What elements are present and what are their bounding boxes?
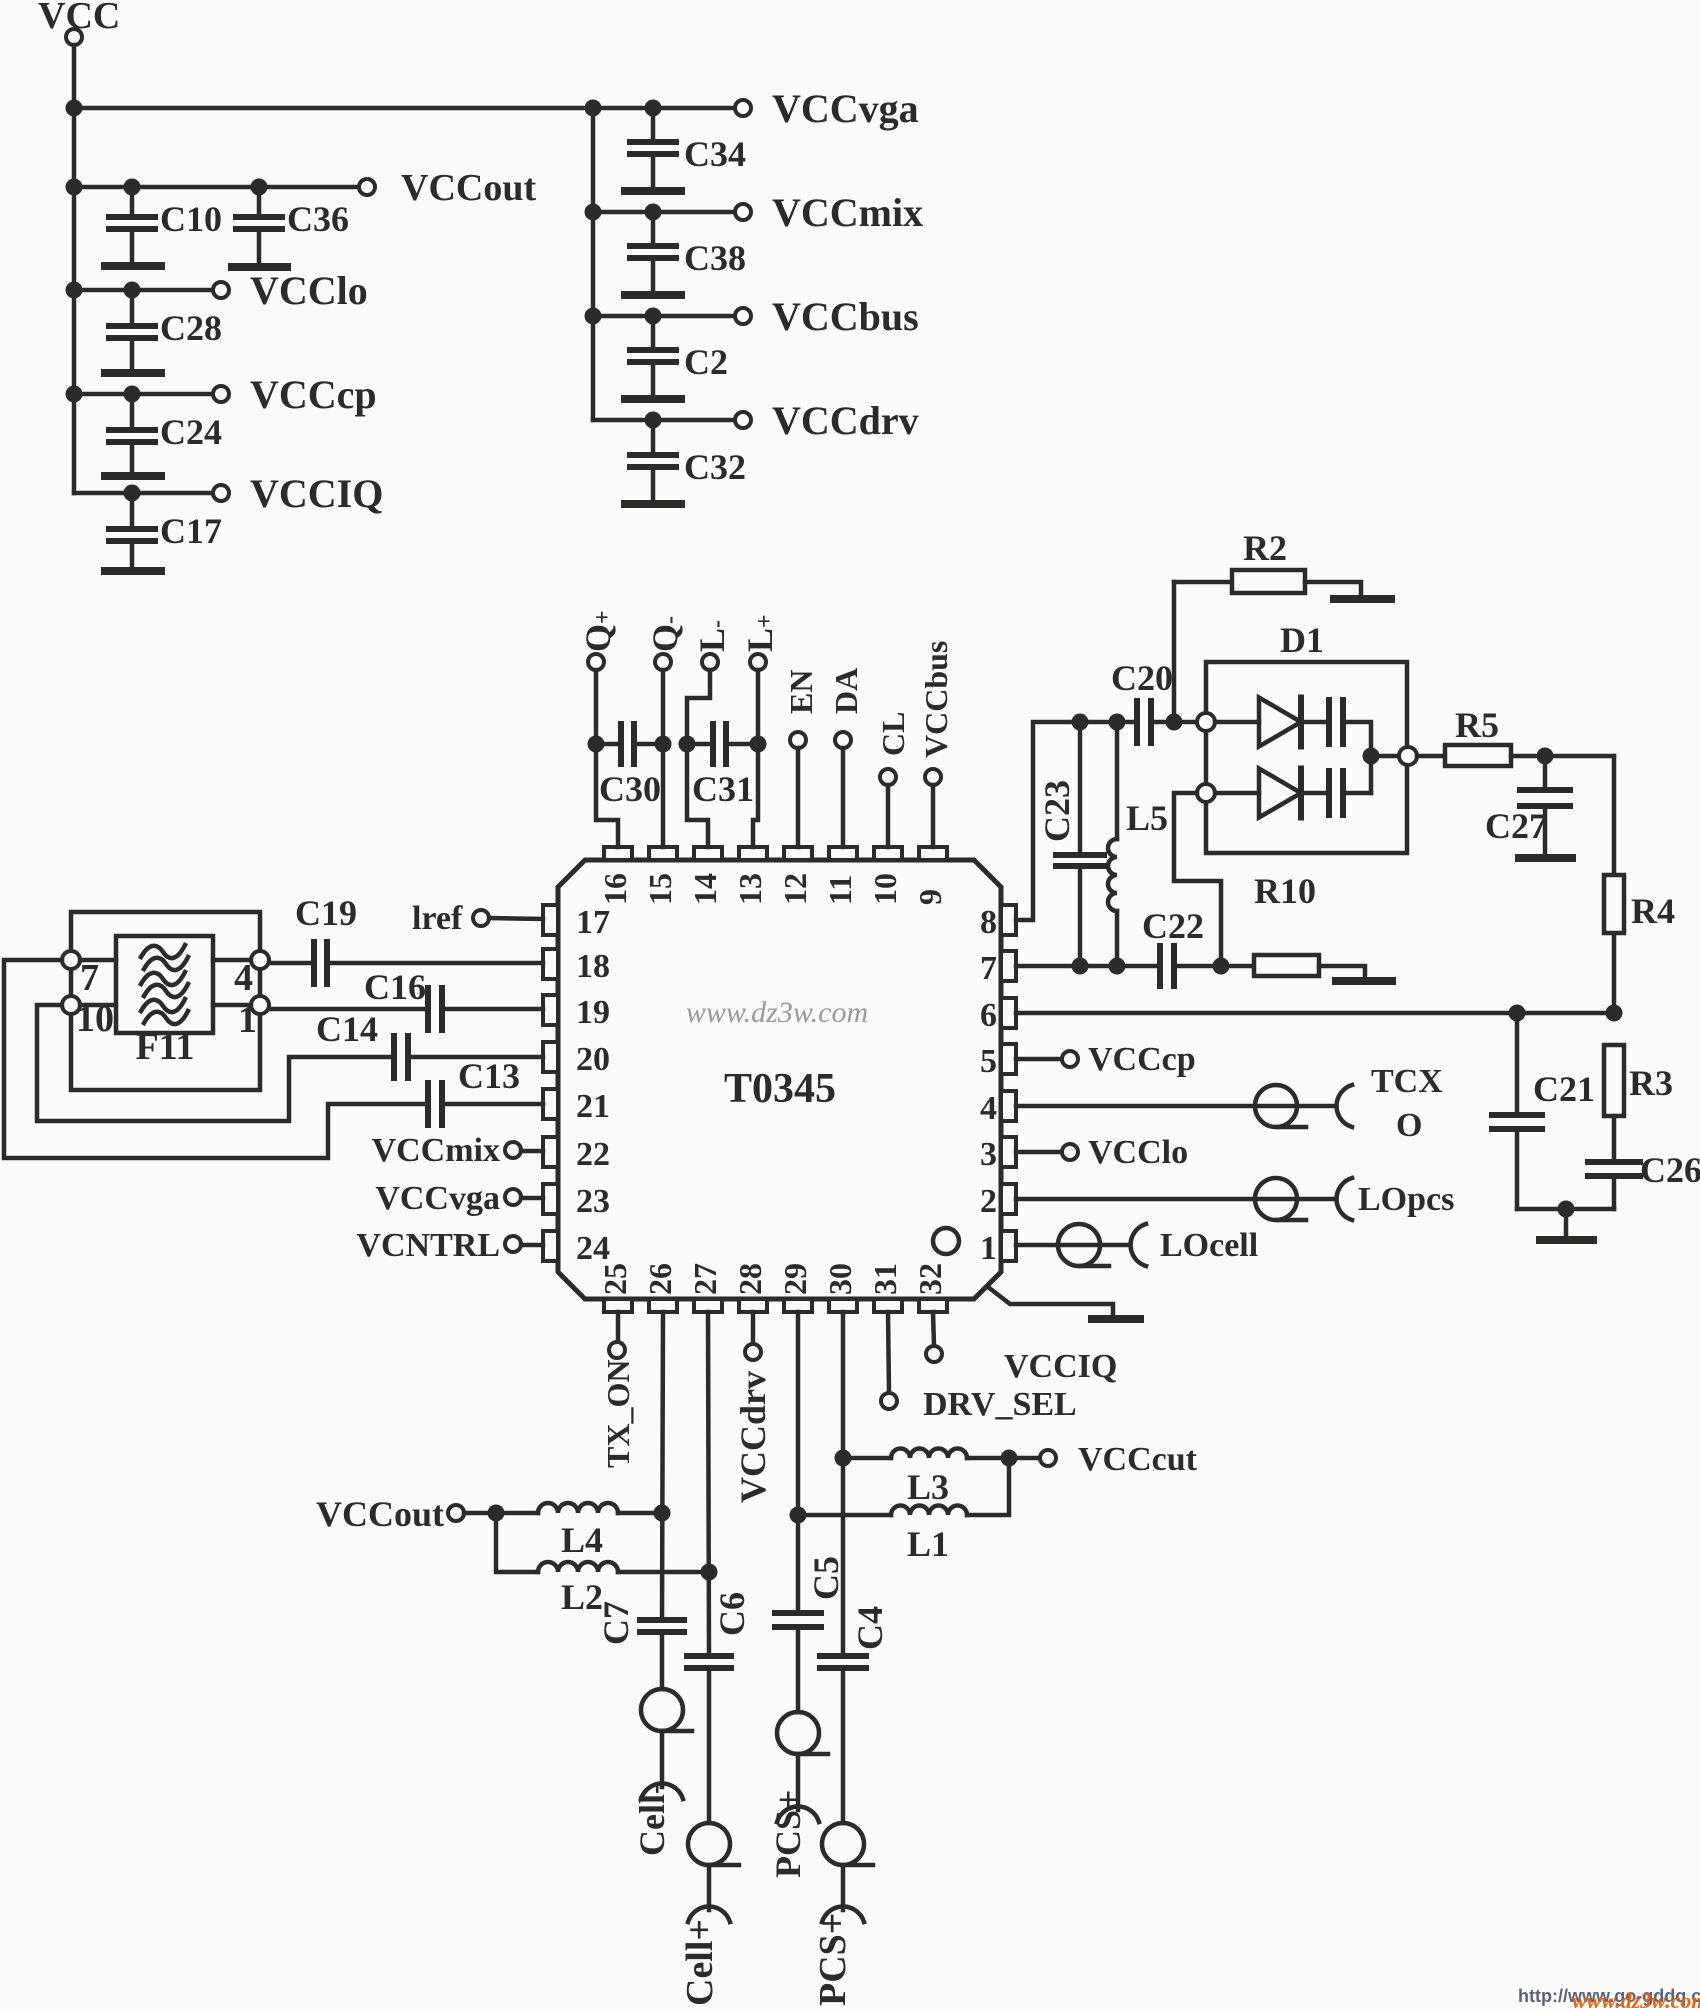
connector Cell+ jack bbox=[688, 1907, 730, 1922]
svg-text:www.dz3w.com: www.dz3w.com bbox=[686, 996, 868, 1029]
connector PCS+b plug bbox=[822, 1823, 864, 1865]
ground C34 bbox=[625, 187, 681, 195]
wire Iref to pin17 bbox=[489, 918, 543, 919]
svg-text:8: 8 bbox=[980, 904, 997, 941]
connector LOpcs jack bbox=[1337, 1178, 1352, 1220]
svg-text:17: 17 bbox=[576, 904, 610, 941]
terminal VCNTRL pin24 bbox=[505, 1236, 521, 1252]
svg-text:C28: C28 bbox=[160, 308, 222, 348]
wire pin18 row C19 bbox=[269, 961, 314, 966]
svg-text:PCS+: PCS+ bbox=[812, 1913, 854, 2006]
inductor L3 bbox=[891, 1449, 967, 1459]
resistor R2 bbox=[1232, 570, 1305, 593]
wire L1 row bbox=[798, 1513, 891, 1518]
wire pin27 down bbox=[708, 1312, 709, 1656]
connector PCS+a jack bbox=[777, 1807, 819, 1822]
svg-text:VCCbus: VCCbus bbox=[772, 294, 919, 339]
svg-text:22: 22 bbox=[576, 1136, 610, 1173]
resistor R5 bbox=[1445, 745, 1511, 766]
svg-text:C10: C10 bbox=[160, 199, 222, 239]
svg-text:11: 11 bbox=[822, 875, 858, 905]
svg-text:C17: C17 bbox=[160, 511, 222, 551]
pin 28 pad bbox=[739, 1299, 767, 1312]
wire pin1 row LOcell bbox=[1016, 1243, 1128, 1248]
capacitor C4 bbox=[820, 1653, 866, 1659]
pin 22 pad bbox=[543, 1137, 558, 1167]
svg-text:4: 4 bbox=[234, 957, 253, 999]
junction bottom gnd bbox=[1558, 1201, 1575, 1218]
wire Cell+ to jack bbox=[707, 1865, 712, 1910]
wire VCCbus row bbox=[593, 314, 735, 319]
svg-text:C34: C34 bbox=[684, 134, 746, 174]
pin 23 pad bbox=[543, 1184, 558, 1214]
connector LOcell plug bbox=[1058, 1224, 1100, 1266]
pin 15 pad bbox=[649, 847, 677, 860]
inductor L4 bbox=[538, 1503, 618, 1513]
svg-text:Cell+: Cell+ bbox=[679, 1919, 721, 2006]
svg-text:L5: L5 bbox=[1126, 798, 1168, 838]
capacitor C21 bbox=[1515, 1013, 1520, 1115]
svg-text:24: 24 bbox=[576, 1230, 610, 1267]
svg-text:C24: C24 bbox=[160, 412, 222, 452]
svg-text:4: 4 bbox=[980, 1090, 997, 1127]
svg-text:VCCmix: VCCmix bbox=[772, 190, 923, 235]
svg-text:27: 27 bbox=[687, 1263, 723, 1295]
terminal VCCdrv bbox=[735, 412, 751, 428]
pin 7 pad bbox=[1001, 951, 1016, 981]
svg-text:Cell-: Cell- bbox=[632, 1784, 672, 1856]
pin 2 pad bbox=[1001, 1184, 1016, 1214]
diode D1b bbox=[1259, 769, 1301, 818]
ground C28 bbox=[105, 369, 161, 377]
svg-text:R2: R2 bbox=[1243, 528, 1287, 568]
svg-text:5: 5 bbox=[980, 1043, 997, 1080]
pin 11 pad bbox=[829, 847, 857, 860]
junction C28 top bbox=[124, 282, 141, 299]
junction rail VCCmix bbox=[585, 204, 602, 221]
wire pin30 down bbox=[841, 1312, 846, 1656]
wire VCCout row bbox=[74, 185, 359, 190]
svg-text:12: 12 bbox=[777, 873, 813, 905]
pin 6 pad bbox=[1001, 998, 1016, 1028]
terminal Q- bbox=[655, 654, 671, 670]
wire L2 right bbox=[618, 1570, 709, 1575]
wire VCClo row bbox=[74, 288, 213, 293]
junction C2 top bbox=[645, 308, 662, 325]
svg-text:VCCmix: VCCmix bbox=[372, 1132, 500, 1169]
wire EN to pin12 bbox=[796, 748, 801, 847]
wire F11 pin7 to C13 pin21 bbox=[4, 960, 428, 1158]
wire top supply row bbox=[74, 106, 735, 111]
capacitor C10 bbox=[130, 187, 135, 217]
junction C31 left bbox=[679, 736, 696, 753]
svg-text:VCCIQ: VCCIQ bbox=[250, 471, 383, 516]
capacitor C30 bbox=[604, 742, 621, 747]
svg-text:O: O bbox=[1396, 1107, 1422, 1144]
inductor L1 bbox=[891, 1506, 967, 1516]
svg-text:C26: C26 bbox=[1640, 1150, 1700, 1190]
pin 19 pad bbox=[543, 995, 558, 1025]
junction C30 left bbox=[588, 736, 605, 753]
pin 25 pad bbox=[604, 1299, 632, 1312]
svg-text:T0345: T0345 bbox=[724, 1066, 836, 1112]
connector Cell- jack bbox=[641, 1784, 683, 1799]
capacitor C6 bbox=[687, 1653, 731, 1659]
pin 8 pad bbox=[1001, 905, 1016, 935]
ground C17 bbox=[105, 567, 161, 575]
wire D1 output bbox=[1371, 754, 1399, 759]
capacitor C27 bbox=[1543, 756, 1548, 790]
capacitor C23 bbox=[1078, 722, 1083, 855]
svg-text:VCCdrv: VCCdrv bbox=[733, 1371, 773, 1503]
junction VCCout split bbox=[488, 1505, 505, 1522]
terminal VCCcut bbox=[1040, 1450, 1056, 1466]
terminal VCCmix bbox=[735, 204, 751, 220]
wire VCCIQ row bbox=[74, 491, 213, 496]
svg-text:VCCdrv: VCCdrv bbox=[772, 398, 919, 443]
filter F11 outer box bbox=[71, 912, 260, 1090]
capacitor C34 bbox=[651, 108, 656, 142]
wire bottom join bbox=[1517, 1207, 1614, 1212]
wire D1b cap right bbox=[1343, 791, 1371, 796]
junction C38 top bbox=[645, 204, 662, 221]
junction rail VCCbus bbox=[585, 308, 602, 325]
wire L+ to pin13 bbox=[753, 670, 758, 847]
filter wave 2 bbox=[141, 972, 185, 985]
inductor L2 bbox=[538, 1562, 618, 1572]
svg-text:L3: L3 bbox=[907, 1467, 949, 1507]
wire VCNTRL to pin24 bbox=[521, 1243, 543, 1248]
junction VCC/top bbox=[66, 100, 83, 117]
svg-text:C31: C31 bbox=[692, 769, 754, 809]
pin 5 pad bbox=[1001, 1044, 1016, 1074]
wire DA to pin11 bbox=[841, 748, 846, 847]
capacitor C7 bbox=[640, 1617, 684, 1623]
terminal EN bbox=[790, 732, 806, 748]
svg-text:VCClo: VCClo bbox=[250, 268, 368, 313]
wire VCC rail bbox=[72, 45, 77, 493]
capacitor C13 bbox=[425, 1083, 431, 1125]
terminal Iref bbox=[473, 910, 489, 926]
D1 lower terminal bbox=[1197, 784, 1215, 802]
terminal VCCvga pin23 bbox=[505, 1189, 521, 1205]
pin 12 pad bbox=[784, 847, 812, 860]
wire F11 pin10 internal bbox=[80, 1003, 116, 1008]
svg-text:9: 9 bbox=[912, 889, 948, 905]
pin 1 marker bbox=[933, 1228, 959, 1254]
capacitor D1a internal bbox=[1326, 700, 1332, 744]
diode pack D1 box bbox=[1206, 662, 1407, 853]
terminal VCCIQ bbox=[213, 485, 229, 501]
svg-text:C27: C27 bbox=[1485, 806, 1547, 846]
wire pin2 row LOpcs bbox=[1016, 1197, 1334, 1202]
pin 26 pad bbox=[649, 1299, 677, 1312]
svg-text:21: 21 bbox=[576, 1088, 610, 1125]
svg-text:VCCvga: VCCvga bbox=[375, 1180, 500, 1217]
capacitor C17 bbox=[130, 493, 135, 529]
svg-text:19: 19 bbox=[576, 994, 610, 1031]
capacitor C24 bbox=[130, 394, 135, 430]
terminal VCClo bbox=[213, 282, 229, 298]
svg-text:C36: C36 bbox=[287, 199, 349, 239]
pin 30 pad bbox=[829, 1299, 857, 1312]
connector PCS+a plug bbox=[777, 1712, 819, 1754]
wire gnd stem bbox=[1564, 1209, 1569, 1237]
inductor L5 bbox=[1115, 722, 1120, 839]
svg-text:CL: CL bbox=[875, 712, 911, 756]
svg-text:29: 29 bbox=[777, 1263, 813, 1295]
F11 pin 1 circle bbox=[251, 996, 269, 1014]
connector Cell- plug bbox=[641, 1689, 683, 1731]
junction L4 right bbox=[654, 1505, 671, 1522]
svg-text:10: 10 bbox=[867, 873, 903, 905]
svg-text:C19: C19 bbox=[295, 893, 357, 933]
junction C31 right bbox=[750, 736, 767, 753]
wire D1 upper anode bbox=[1215, 720, 1259, 725]
capacitor C28 bbox=[130, 290, 135, 326]
svg-text:L1: L1 bbox=[907, 1524, 949, 1564]
svg-text:7: 7 bbox=[980, 950, 997, 987]
svg-text:L4: L4 bbox=[561, 1520, 603, 1560]
junction VCCout row bbox=[66, 179, 83, 196]
ground C2 bbox=[625, 395, 681, 403]
wire VCCmix to pin22 bbox=[521, 1149, 543, 1154]
pin 9 pad bbox=[919, 847, 947, 860]
wire R2 riser bbox=[1172, 582, 1177, 722]
wire C6 to Cell+ bbox=[707, 1668, 712, 1823]
wire Q+ to pin16 bbox=[596, 670, 618, 847]
junction L5 bottom bbox=[1109, 958, 1126, 975]
ground R10 bbox=[1336, 977, 1392, 985]
capacitor C38 bbox=[651, 212, 656, 246]
ground right bbox=[1540, 1236, 1593, 1244]
capacitor C20 bbox=[1134, 701, 1140, 743]
pin 21 pad bbox=[543, 1089, 558, 1119]
svg-text:VCCcut: VCCcut bbox=[1078, 1441, 1198, 1478]
svg-text:13: 13 bbox=[732, 873, 768, 905]
IC corner ground wire bbox=[988, 1287, 1113, 1317]
terminal DA bbox=[835, 732, 851, 748]
junction L1 left bbox=[790, 1507, 807, 1524]
D1 right terminal bbox=[1399, 747, 1417, 765]
wire VCCout to L4 bbox=[464, 1511, 538, 1516]
wire pin6 row bbox=[1016, 1011, 1614, 1016]
wire L- to pin14 bbox=[687, 670, 710, 847]
svg-text:C5: C5 bbox=[806, 1556, 846, 1600]
svg-text:16: 16 bbox=[597, 873, 633, 905]
pin 3 pad bbox=[1001, 1137, 1016, 1167]
filter F11 inner box bbox=[116, 936, 213, 1033]
junction R2 branch bbox=[1166, 714, 1183, 731]
wire Q- to pin15 bbox=[661, 670, 666, 847]
svg-text:VCCIQ: VCCIQ bbox=[1004, 1348, 1117, 1385]
pin 18 pad bbox=[543, 949, 558, 979]
terminal VCCbus pin9 bbox=[925, 769, 941, 785]
wire F11 pin4 internal bbox=[213, 958, 251, 963]
wire CL to pin10 bbox=[886, 785, 891, 847]
ground R2 bbox=[1334, 595, 1391, 603]
terminal VCCIQ pin32 bbox=[926, 1346, 942, 1362]
junction D1 output bbox=[1363, 748, 1380, 765]
junction C30 right bbox=[655, 736, 672, 753]
pin 32 pad bbox=[919, 1299, 947, 1312]
svg-text:C14: C14 bbox=[316, 1009, 378, 1049]
wire F11 pin1 internal bbox=[213, 1003, 251, 1008]
pin 27 pad bbox=[694, 1299, 722, 1312]
wire D1 to R5 bbox=[1417, 754, 1445, 759]
resistor R3 bbox=[1604, 1045, 1624, 1116]
svg-text:VCCbus: VCCbus bbox=[918, 641, 954, 758]
pin 17 pad bbox=[543, 905, 558, 935]
svg-text:www.dz3w.com: www.dz3w.com bbox=[1572, 1988, 1700, 2011]
wire R4 riser bbox=[1612, 756, 1617, 1013]
capacitor C22 bbox=[1157, 946, 1163, 986]
svg-text:28: 28 bbox=[732, 1263, 768, 1295]
wire pin5 row bbox=[1016, 1057, 1062, 1062]
wire R2 right bbox=[1305, 582, 1361, 596]
svg-text:VCClo: VCClo bbox=[1088, 1134, 1188, 1171]
svg-text:TCX: TCX bbox=[1371, 1063, 1443, 1100]
wire pin3 row bbox=[1016, 1150, 1062, 1155]
svg-text:TX_ON: TX_ON bbox=[600, 1360, 636, 1468]
svg-text:VCCout: VCCout bbox=[401, 167, 536, 209]
wire Cell- to jack bbox=[660, 1731, 665, 1787]
svg-text:VCCout: VCCout bbox=[316, 1494, 444, 1534]
wire pin25 down bbox=[616, 1312, 621, 1342]
svg-text:6: 6 bbox=[980, 997, 997, 1034]
svg-text:L2: L2 bbox=[561, 1577, 603, 1617]
svg-text:C16: C16 bbox=[364, 967, 426, 1007]
junction C27 top bbox=[1537, 748, 1554, 765]
ground C24 bbox=[105, 472, 161, 480]
ground C10 bbox=[105, 262, 161, 270]
wire L3 row bbox=[843, 1456, 891, 1461]
D1 upper terminal bbox=[1197, 713, 1215, 731]
wire pin7 row bbox=[1016, 964, 1160, 969]
terminal VCCdrv pin28 bbox=[745, 1344, 761, 1360]
pin 16 pad bbox=[604, 847, 632, 860]
junction L5 top bbox=[1109, 714, 1126, 731]
junction R3 top bbox=[1606, 1005, 1623, 1022]
terminal VCCcp bbox=[213, 386, 229, 402]
svg-text:C6: C6 bbox=[712, 1592, 752, 1636]
F11 pin 7 circle bbox=[62, 951, 80, 969]
junction L3/L1 bbox=[1001, 1450, 1018, 1467]
junction rail top bbox=[585, 100, 602, 117]
svg-text:32: 32 bbox=[912, 1263, 948, 1295]
capacitor C32 bbox=[651, 420, 656, 455]
svg-text:30: 30 bbox=[822, 1263, 858, 1295]
connector LOcell jack bbox=[1131, 1224, 1146, 1266]
wire C5 to PCS+a bbox=[796, 1627, 801, 1712]
wire PCS+a to jack bbox=[796, 1754, 801, 1810]
terminal VCC bbox=[66, 29, 82, 45]
connector Cell+ plug bbox=[688, 1823, 730, 1865]
connector PCS+b jack bbox=[822, 1907, 864, 1922]
capacitor D1b internal bbox=[1326, 771, 1332, 815]
terminal VCCbus bbox=[735, 308, 751, 324]
junction C36 top bbox=[251, 179, 268, 196]
wire D1 lower anode bbox=[1215, 791, 1259, 796]
svg-text:VCCcp: VCCcp bbox=[250, 372, 377, 417]
wire VCCdrv row bbox=[593, 418, 735, 423]
wire F11 pin7 internal bbox=[80, 958, 116, 963]
svg-text:C21: C21 bbox=[1533, 1069, 1595, 1109]
ground C32 bbox=[625, 500, 681, 508]
wire D1 lower to C22 node bbox=[1174, 793, 1221, 966]
wire D1b to cap bbox=[1301, 791, 1329, 796]
capacitor C31 bbox=[695, 742, 713, 747]
svg-text:C38: C38 bbox=[684, 238, 746, 278]
svg-text:31: 31 bbox=[867, 1263, 903, 1295]
svg-text:C30: C30 bbox=[599, 769, 661, 809]
pin 24 pad bbox=[543, 1231, 558, 1261]
svg-text:LOcell: LOcell bbox=[1160, 1227, 1258, 1264]
wire pin31 down bbox=[888, 1312, 889, 1393]
svg-text:15: 15 bbox=[642, 873, 678, 905]
svg-text:VCNTRL: VCNTRL bbox=[356, 1227, 500, 1264]
terminal Q+ bbox=[588, 654, 604, 670]
svg-text:23: 23 bbox=[576, 1183, 610, 1220]
capacitor C36 bbox=[257, 187, 262, 217]
junction C34 top bbox=[645, 100, 662, 117]
junction C23 bottom bbox=[1072, 958, 1089, 975]
wire R5 right bbox=[1511, 754, 1614, 759]
capacitor C5 bbox=[775, 1610, 821, 1616]
diode D1a bbox=[1259, 698, 1301, 747]
capacitor C19 bbox=[311, 942, 317, 984]
terminal VCCvga bbox=[735, 100, 751, 116]
wire C7 to Cell- bbox=[660, 1632, 665, 1689]
svg-text:2: 2 bbox=[980, 1183, 997, 1220]
wire pin28 down bbox=[751, 1312, 756, 1344]
terminal VCCout bottom bbox=[448, 1505, 464, 1521]
filter wave 1 bbox=[141, 945, 185, 958]
svg-text:C13: C13 bbox=[458, 1056, 520, 1096]
IC U1 T0345 body bbox=[558, 860, 1001, 1299]
svg-text:1: 1 bbox=[980, 1230, 997, 1267]
connector TCXO jack bbox=[1337, 1085, 1352, 1127]
terminal DRV_SEL bbox=[881, 1393, 897, 1409]
wire pin29 down bbox=[796, 1312, 801, 1613]
svg-text:F11: F11 bbox=[135, 1026, 194, 1068]
svg-text:14: 14 bbox=[687, 873, 723, 905]
wire L2 branch bbox=[496, 1513, 538, 1572]
svg-text:C32: C32 bbox=[684, 447, 746, 487]
junction R10 node bbox=[1213, 958, 1230, 975]
terminal VCClo pin3 bbox=[1062, 1144, 1078, 1160]
junction C32 top bbox=[645, 412, 662, 429]
pin 20 pad bbox=[543, 1042, 558, 1072]
wire R2 left bbox=[1174, 580, 1232, 585]
junction C24 top bbox=[124, 386, 141, 403]
svg-text:R5: R5 bbox=[1455, 705, 1499, 745]
svg-text:C20: C20 bbox=[1111, 658, 1173, 698]
svg-text:R3: R3 bbox=[1629, 1063, 1673, 1103]
svg-text:25: 25 bbox=[597, 1263, 633, 1295]
wire D1a cap right bbox=[1343, 722, 1371, 793]
wire pin26 down bbox=[662, 1312, 663, 1620]
svg-text:DRV_SEL: DRV_SEL bbox=[923, 1386, 1077, 1423]
svg-text:20: 20 bbox=[576, 1041, 610, 1078]
wire VCCvga to pin23 bbox=[521, 1196, 543, 1201]
terminal CL bbox=[880, 769, 896, 785]
svg-text:7: 7 bbox=[80, 957, 99, 999]
wire L3 right bbox=[967, 1456, 1040, 1461]
wire VCCcp row bbox=[74, 392, 213, 397]
IC corner ground bbox=[1092, 1315, 1140, 1323]
connector TCXO plug bbox=[1255, 1085, 1297, 1127]
